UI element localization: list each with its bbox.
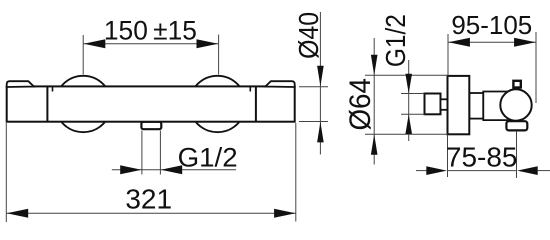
escutcheon circle left (front view) [55,76,111,132]
dimension 150±15: right extension line [218,35,220,75]
side view: stub neck [441,99,448,110]
dimension G1/2 front: left extension line [141,131,143,175]
dimension G1/2 front: left arrow [120,165,141,174]
dimension 150±15: dimension line [84,43,219,45]
dimension 75-85: right extension line [516,131,518,178]
left cap ridge [7,81,34,87]
dimension Ø64: bottom arrow [371,134,378,154]
dimension G1/2 front: right arrow [161,165,182,174]
side view: tube piece 2 [483,92,510,121]
dimension 150±15: left extension line [82,35,84,75]
dimension 75-85: dimension line between [448,170,517,172]
dimension 321: dimension line [7,212,296,214]
dimension 95-105: left extension line [447,34,449,76]
dimension 75-85: right tail line [537,170,550,172]
side view: barrel circle Ø40 [500,89,531,120]
side view: knob on top [513,81,520,88]
dimension Ø40: bottom arrow [317,122,324,143]
dimension 95-105: right extension line [535,32,537,103]
right cap junction line [255,86,257,121]
side view: escutcheon plate [448,76,470,134]
dimension Ø40: dimension line [319,12,321,155]
dimension 95-105: left arrow [448,38,470,47]
svg-text:95-105: 95-105 [451,10,532,40]
dimension G1/2 side: bottom extension line [401,113,425,115]
dimension G1/2 front: dimension line [112,169,236,171]
dimension Ø40: top arrow [317,66,324,87]
dimension G1/2 side: dimension line [408,60,410,141]
dimension 75-85: left tail line [416,170,427,172]
dimension G1/2 front: right extension line [159,131,161,175]
dimension 75-85: left arrow (outside, pointing right) [426,166,447,175]
dimension 95-105: dimension line [448,41,536,43]
dimension G1/2 side: top arrow [405,74,412,94]
dimension 75-85: right arrow (outside, pointing left) [517,166,538,175]
svg-text:321: 321 [125,183,172,214]
dimension 321: left arrow [7,209,29,218]
svg-text:Ø64: Ø64 [344,78,377,131]
dimension Ø64: top extension line [365,74,448,76]
dimension Ø64: bottom extension line [365,133,448,135]
dimension G1/2 side: bottom arrow [405,114,412,134]
dimension Ø40: top extension line [299,86,328,88]
side view: tube piece 1 [469,93,483,119]
right joint tick [249,87,251,92]
left joint tick [52,87,54,92]
svg-text:75-85: 75-85 [446,142,518,173]
side view: wall stub G1/2 [425,94,441,115]
svg-text:G1/2: G1/2 [178,142,238,172]
dimension Ø64: top arrow [371,55,378,75]
side view: handle below [506,121,527,130]
svg-text:150 ±15: 150 ±15 [104,15,197,45]
svg-text:Ø40: Ø40 [293,12,324,59]
outlet stub G1/2 (front view) [141,122,161,129]
dimension 321: right extension line [295,123,297,222]
dimension Ø64: dimension line [373,38,375,165]
left cap junction line [46,86,48,121]
dimension 321: right arrow [274,209,296,218]
dimension 75-85: left extension line [447,135,449,177]
dimension 150±15: right arrow [197,39,219,48]
escutcheon circle right (front view) [189,76,245,132]
dimension Ø40: bottom extension line [299,121,328,123]
dimension 321: left extension line [5,123,7,222]
mixer body bar (front view) [7,86,295,121]
svg-text:G1/2: G1/2 [380,14,411,67]
right cap ridge [265,81,294,87]
dimension 150±15: left arrow [84,39,106,48]
dimension 95-105: right arrow [514,38,536,47]
dimension G1/2 side: top extension line [401,93,425,95]
